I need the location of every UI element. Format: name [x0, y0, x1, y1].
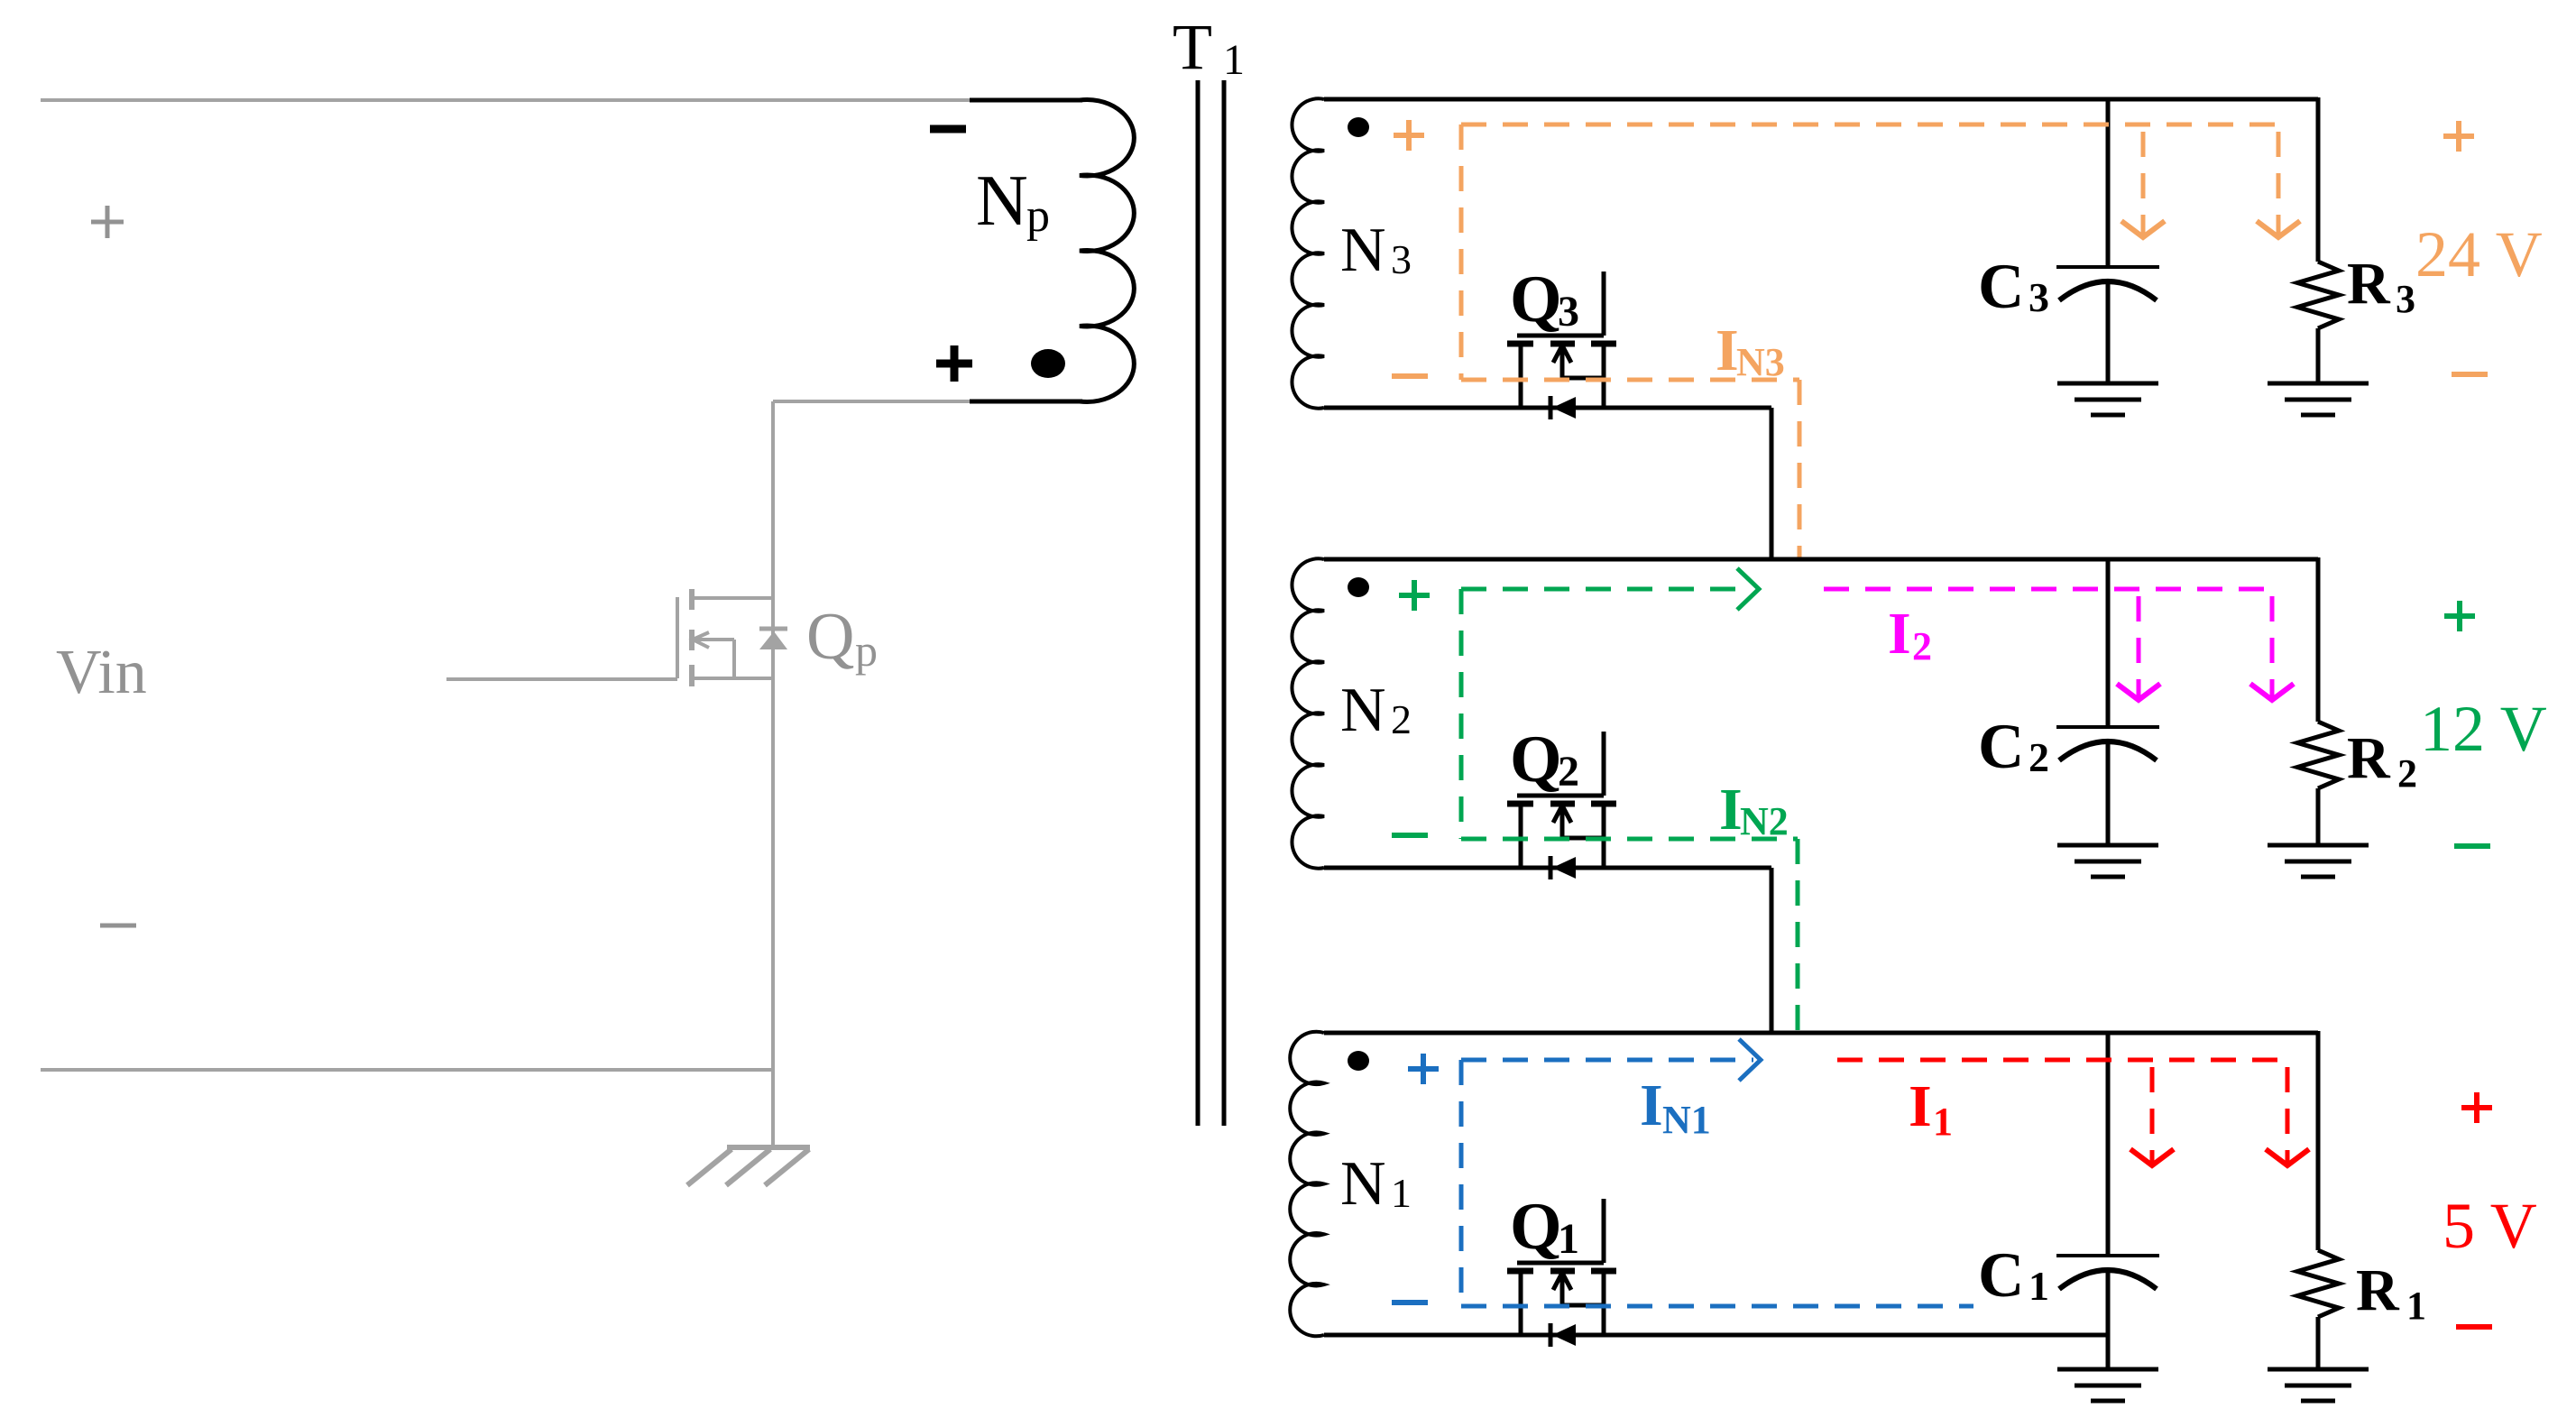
ground (C1) [2057, 1367, 2158, 1372]
svg-text:3: 3 [2396, 277, 2415, 321]
transistor Q2 gate bar [1517, 794, 1604, 798]
ground (R1) [2268, 1367, 2369, 1372]
transistor Qp source bar [692, 677, 773, 680]
svg-text:I: I [1716, 318, 1739, 383]
wire: Qp source vertical [771, 678, 775, 1147]
wire: N2 bottom rail [1324, 866, 1771, 870]
resistor R3 [2297, 262, 2339, 328]
transistor Q1 body connection [1562, 1303, 1604, 1308]
ground (primary) [727, 1145, 810, 1150]
transistor Q3 body arrow [1560, 349, 1565, 378]
transistor Qp body arrow [696, 638, 734, 641]
svg-text:R: R [2356, 1257, 2400, 1323]
label - (Vin) [100, 924, 136, 928]
label - (N2) [1392, 833, 1428, 838]
svg-text:2: 2 [1558, 748, 1579, 796]
transistor Q1 drain lead [1602, 1271, 1606, 1335]
wire: N3 to N2 junction vertical [1770, 408, 1774, 559]
label + (Vin) [91, 220, 124, 225]
polarity dot N1 [1348, 1051, 1369, 1071]
wire: primary winding bottom lead (black part) [970, 400, 1082, 404]
svg-text:Q: Q [1510, 1190, 1562, 1264]
wire: C2 bottom lead [2106, 743, 2111, 845]
svg-text:R: R [2347, 251, 2391, 317]
transistor Q3 gate lead [1602, 272, 1606, 336]
polarity dot N3 [1348, 117, 1369, 137]
winding N2 [1292, 558, 1324, 868]
transistor Q2 source lead [1519, 804, 1523, 868]
svg-text:C: C [1978, 252, 2024, 322]
capacitor C3 [2056, 265, 2159, 269]
polarity dot Np [1031, 349, 1065, 378]
current arrow I3 into C3 [2141, 132, 2146, 235]
current path IN3 (dashed orange loop) [1461, 123, 2280, 127]
wire: N1 top rail [1324, 1031, 2318, 1036]
transistor Q3 channel bars [1507, 341, 1533, 347]
label + (Np bottom) [936, 360, 972, 368]
current path I1 (dashed red) [1837, 1058, 2289, 1063]
ground (R3) [2268, 382, 2369, 386]
current arrow I2 into R2 [2270, 596, 2275, 697]
ground (C3) [2057, 382, 2158, 386]
label - (Np top) [930, 125, 966, 133]
wire: N3 bottom rail [1324, 406, 1771, 410]
svg-text:N: N [1340, 216, 1386, 285]
wire: R3 bottom lead [2316, 328, 2321, 383]
label + (N3 dotted end) [1394, 133, 1424, 138]
svg-text:Q: Q [1510, 723, 1562, 796]
svg-text:1: 1 [1558, 1215, 1579, 1263]
label + (output 5 V) [2461, 1105, 2492, 1110]
svg-text:2: 2 [2397, 751, 2417, 796]
transistor Q3 source lead [1519, 344, 1523, 408]
svg-text:24 V: 24 V [2415, 218, 2543, 290]
transistor Q1 gate bar [1517, 1261, 1604, 1266]
polarity dot N2 [1348, 577, 1369, 597]
svg-text:Vin: Vin [56, 638, 147, 707]
wire: R2 bottom lead [2316, 788, 2321, 845]
label - (output 24 V) [2452, 372, 2488, 377]
transistor Qp body connection [732, 640, 736, 678]
current arrow I1 into C1 [2150, 1067, 2155, 1163]
current arrow I1 into R1 [2286, 1067, 2290, 1163]
svg-text:N: N [976, 161, 1028, 241]
svg-text:1: 1 [2406, 1284, 2426, 1328]
label + (N1 dotted end) [1408, 1066, 1439, 1072]
svg-text:3: 3 [2029, 274, 2049, 320]
svg-text:C: C [1978, 1240, 2024, 1311]
transistor Q2 drain lead [1602, 804, 1606, 868]
wire: primary winding top lead (black part) [970, 98, 1082, 103]
wire: R1 bottom lead [2316, 1317, 2321, 1369]
resistor R1 [2297, 1250, 2339, 1317]
wire: Qp diode vertical segment [771, 598, 775, 678]
svg-text:R: R [2347, 725, 2391, 791]
ground (R2) [2268, 843, 2369, 848]
transistor Q3 drain lead [1602, 344, 1606, 408]
winding N1 [1290, 1032, 1324, 1337]
capacitor C2 [2056, 725, 2159, 729]
svg-text:I: I [1888, 601, 1911, 667]
svg-text:1: 1 [1391, 1170, 1412, 1216]
wire: C1 bottom lead [2106, 1272, 2111, 1369]
transistor Q2 body arrow [1560, 809, 1565, 838]
label - (output 12 V) [2454, 843, 2490, 849]
wire: R1 top lead [2316, 1031, 2321, 1250]
current arrow I2 into C2 [2137, 596, 2141, 697]
winding Np [1080, 99, 1134, 401]
transformer T1 core [1196, 80, 1201, 1126]
node Vin+ top rail wire [41, 98, 970, 102]
transistor Q3 body connection [1562, 376, 1604, 381]
wire: C1 bottom rail extension [2106, 1335, 2111, 1369]
svg-text:12 V: 12 V [2420, 693, 2547, 765]
svg-text:I: I [1909, 1073, 1932, 1139]
transistor Q3 body diode [1549, 396, 1553, 419]
label + (output 12 V) [2444, 613, 2475, 619]
svg-text:p: p [1026, 190, 1050, 242]
wire: C3 top lead [2106, 99, 2111, 267]
svg-text:N: N [1340, 1149, 1386, 1219]
svg-text:p: p [855, 625, 878, 676]
transistor Qp drain bar [692, 596, 773, 600]
transistor Q1 body diode [1549, 1323, 1553, 1347]
label - (N3) [1392, 373, 1428, 379]
svg-text:5 V: 5 V [2443, 1190, 2537, 1262]
transistor Q2 channel bars [1507, 801, 1533, 807]
svg-text:I: I [1640, 1073, 1663, 1138]
transistor Q2 body diode [1549, 856, 1553, 879]
wire: Vin- bottom rail [41, 1068, 774, 1072]
ground (C2) [2057, 843, 2158, 848]
transistor Qp channel bars [689, 589, 695, 610]
transistor Q2 body connection [1562, 836, 1604, 841]
label + (N2 dotted end) [1399, 593, 1430, 598]
svg-text:T: T [1173, 11, 1212, 83]
current path I2 (dashed magenta) [1824, 587, 2274, 592]
current arrow I3 into R3 [2277, 132, 2281, 235]
svg-text:N3: N3 [1736, 340, 1785, 384]
winding N3 [1292, 98, 1324, 408]
wire: C3 bottom lead [2106, 283, 2111, 383]
svg-text:N1: N1 [1662, 1098, 1711, 1142]
svg-text:N2: N2 [1740, 799, 1789, 843]
wire: C1 top lead [2106, 1033, 2111, 1256]
transistor Q1 gate lead [1602, 1199, 1606, 1263]
resistor R2 [2297, 722, 2339, 788]
transistor Q1 source lead [1519, 1271, 1523, 1335]
svg-text:1: 1 [1223, 36, 1245, 84]
svg-text:2: 2 [2029, 734, 2049, 780]
svg-text:N: N [1340, 676, 1386, 745]
wire: R3 top lead [2316, 97, 2321, 262]
svg-text:1: 1 [2029, 1263, 2049, 1309]
transistor Q1 channel bars [1507, 1268, 1533, 1275]
transistor Q2 gate lead [1602, 732, 1606, 796]
label + (output 24 V) [2443, 133, 2474, 139]
capacitor C1 [2056, 1254, 2159, 1257]
label - (N1) [1392, 1300, 1428, 1305]
svg-text:2: 2 [1912, 624, 1932, 668]
wire: N2 top rail [1324, 557, 2318, 562]
svg-text:3: 3 [1391, 236, 1412, 282]
wire: N2 to N1 junction vertical [1770, 868, 1774, 1033]
svg-text:I: I [1719, 777, 1743, 842]
transistor Qp gate wire [446, 677, 677, 681]
svg-text:2: 2 [1391, 696, 1412, 742]
svg-text:3: 3 [1558, 288, 1579, 336]
current path IN1 (dashed blue loop) [1461, 1058, 1753, 1063]
svg-text:1: 1 [1933, 1100, 1953, 1144]
label - (output 5 V) [2456, 1324, 2492, 1330]
current path IN2 (dashed green loop) [1461, 587, 1752, 592]
wire: N3 top rail [1324, 97, 2318, 102]
svg-text:Q: Q [806, 600, 854, 674]
wire: primary winding bottom lead (gray part) [773, 400, 970, 403]
transistor Q1 body arrow [1560, 1276, 1565, 1305]
transistor Qp gate bar [676, 597, 679, 678]
wire: Qp drain vertical [771, 401, 775, 598]
svg-text:Q: Q [1510, 262, 1562, 336]
transistor Qp body diode [759, 627, 787, 631]
wire: N1 bottom rail [1324, 1333, 2108, 1338]
transistor Q3 gate bar [1517, 334, 1604, 338]
wire: C2 top lead [2106, 559, 2111, 727]
wire: R2 top lead [2316, 557, 2321, 722]
svg-text:C: C [1978, 712, 2024, 782]
